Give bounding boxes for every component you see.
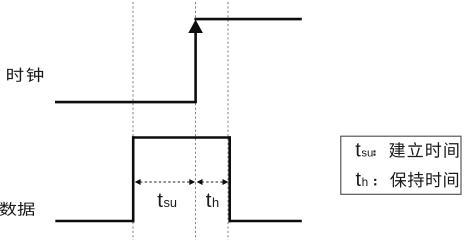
data low level left wire <box>55 220 134 223</box>
legend box <box>341 136 461 194</box>
hold arrow right head <box>223 179 229 185</box>
data low level right wire <box>229 220 302 223</box>
label: data 数据 <box>0 202 16 216</box>
clock rising edge arrowhead <box>188 20 203 33</box>
data high level wire <box>132 136 231 139</box>
hold time dimension shaft (dashed) <box>202 181 224 183</box>
svg-text:h: h <box>212 195 219 210</box>
clock low level wire <box>55 101 197 104</box>
data rising edge wire <box>132 136 135 222</box>
guide dashed line: setup start / data rising edge <box>132 2 134 240</box>
svg-text:su: su <box>361 147 373 159</box>
setup time dimension shaft (dashed) <box>140 181 190 183</box>
clock high level wire <box>194 18 301 21</box>
label: clock 时钟 <box>7 68 23 82</box>
clock rising edge wire <box>194 30 197 103</box>
svg-text:t: t <box>355 139 361 161</box>
setup arrow left head <box>135 179 141 185</box>
svg-text:t: t <box>157 189 163 212</box>
svg-text:t: t <box>356 169 362 191</box>
data falling edge wire <box>228 136 231 222</box>
setup arrow right head <box>189 179 195 185</box>
svg-text:su: su <box>164 195 178 210</box>
svg-text:h: h <box>362 175 369 189</box>
guide dashed line: hold end / data falling edge <box>227 2 229 240</box>
hold arrow left head <box>197 179 203 185</box>
guide dashed line: clock edge <box>195 2 197 240</box>
svg-text:t: t <box>206 189 212 212</box>
